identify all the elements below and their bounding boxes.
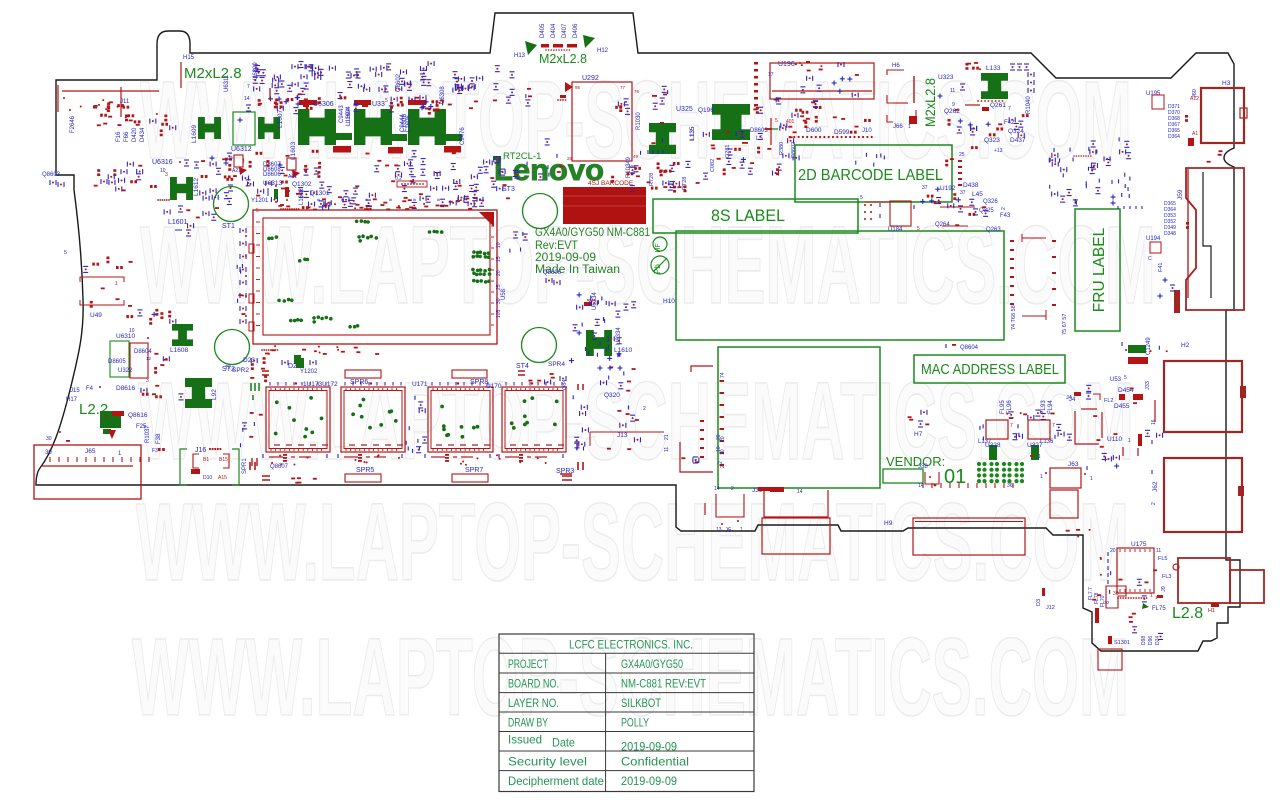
svg-text:Q320: Q320 [604,392,620,399]
svg-text:Q326: Q326 [983,199,998,205]
chip U175 [1117,548,1154,593]
svg-text:1U173U172: 1U173U172 [303,381,338,388]
svg-text:75 67 57: 75 67 57 [1062,314,1068,335]
svg-text:U6306: U6306 [313,101,334,108]
chip U292 [572,82,632,161]
component cluster chip gaps [406,396,423,451]
svg-text:H1: H1 [1208,608,1215,614]
svg-text:11: 11 [1156,548,1161,554]
svg-text:Y1201: Y1201 [251,198,269,204]
component cluster below J63 [1084,473,1086,475]
svg-text:D3: D3 [1036,599,1042,606]
svg-text:J16: J16 [195,447,206,454]
component cluster top strip b [268,95,300,114]
component cluster boost below-chips [271,454,547,466]
svg-text:L1609: L1609 [191,125,198,143]
svg-text:U170: U170 [486,383,502,390]
svg-text:15: 15 [496,256,502,262]
svg-text:2019-09-09: 2019-09-09 [621,774,677,788]
svg-text:16: 16 [1151,419,1157,425]
connector J5 [716,494,744,517]
inductor L133 [981,73,1008,99]
svg-text:B1: B1 [203,457,209,463]
svg-text:L1612: L1612 [193,178,200,196]
svg-text:Y1202: Y1202 [300,369,318,375]
component row AJ01 [126,309,175,325]
label L137 [989,445,997,460]
component 0.2ohm row [397,181,427,187]
svg-text:FRU LABEL: FRU LABEL [1091,227,1108,312]
RAM U171 top pin row [431,382,433,386]
svg-text:36: 36 [1007,483,1013,489]
svg-text:12: 12 [146,356,152,361]
inductor L1612 [170,177,193,200]
component cluster below H3 [1207,150,1223,162]
svg-text:Q1301: Q1301 [310,190,330,197]
component cluster boost Q26x [945,109,1028,166]
row above CPU [338,196,477,209]
svg-text:Q8606: Q8606 [543,270,562,276]
svg-text:D8604: D8604 [134,349,152,355]
svg-text:1: 1 [1038,454,1041,460]
svg-text:8S LABEL: 8S LABEL [711,207,785,225]
inductor L1610 [586,330,612,356]
svg-text:M2xL2.8: M2xL2.8 [539,52,587,66]
svg-text:1: 1 [1090,476,1093,482]
component cluster boost left [80,102,158,126]
connector J62 [1164,458,1242,532]
svg-text:D98: D98 [1141,636,1147,645]
svg-text:17: 17 [768,72,774,78]
inductor L92 [185,378,212,408]
svg-text:J12: J12 [1046,605,1055,611]
svg-text:SPR6: SPR6 [350,379,368,386]
svg-text:14: 14 [244,96,250,102]
component Q8604 [945,344,947,348]
connector J63 [1050,468,1081,488]
svg-text:2: 2 [720,465,726,468]
svg-text:11: 11 [950,88,955,94]
svg-text:D348: D348 [1164,231,1176,237]
label box FRU LABEL [1075,209,1120,331]
svg-text:U171: U171 [412,381,428,388]
component cluster Q196 right [753,97,798,130]
svg-text:U33: U33 [372,101,385,108]
svg-text:ST3: ST3 [502,186,515,193]
svg-text:SPR2: SPR2 [232,367,249,374]
svg-text:Date: Date [552,736,575,750]
component cluster boost lenovo [630,161,700,192]
component cluster right of U292 [641,86,675,171]
svg-text:28: 28 [567,156,573,161]
svg-text:J65: J65 [85,448,96,455]
svg-text:5: 5 [860,195,863,201]
svg-text:5: 5 [385,98,388,104]
RAM U172 bottom pads [344,456,358,458]
board outline [36,13,1240,651]
label RT2CL-1 [493,156,501,160]
svg-text:Q8607: Q8607 [270,464,289,470]
svg-text:U322: U322 [118,368,133,374]
svg-text:L1610: L1610 [614,347,632,354]
component bracket H-area [590,431,664,433]
label box MAC ADDRESS LABEL [914,355,1065,383]
component cluster boost U6334 [577,300,637,348]
svg-text:FL70: FL70 [1100,595,1106,607]
svg-text:37: 37 [922,185,928,191]
marker H12 tab [583,35,595,48]
RAM U171 bottom pads [431,456,445,458]
svg-text:1: 1 [115,281,118,287]
inductor L1609 [198,117,221,139]
svg-text:RT2CL-1: RT2CL-1 [503,151,541,162]
svg-text:L2.8: L2.8 [1172,605,1203,622]
RAM chip U171 [428,387,493,452]
RAM U173 top pin row [269,382,271,386]
svg-text:30: 30 [46,436,52,442]
svg-text:Q264: Q264 [935,222,950,228]
svg-text:D437: D437 [1010,137,1026,144]
svg-text:11: 11 [664,447,670,452]
svg-text:0.2: 0.2 [395,176,402,182]
component cluster below 8S [864,204,866,206]
resistor pack SPR8 [452,370,487,378]
connector J39 pads [764,490,828,517]
svg-text:POLLY: POLLY [621,716,649,730]
svg-text:J9: J9 [1161,586,1167,592]
svg-text:25: 25 [959,152,965,158]
component cluster below L1610 [601,366,636,391]
svg-text:7: 7 [1008,106,1011,112]
svg-text:20: 20 [720,436,726,442]
svg-text:1: 1 [740,527,743,533]
svg-text:D8606: D8606 [263,172,281,178]
svg-text:L1606: L1606 [406,115,412,132]
component cluster boost top1 [253,66,336,95]
svg-text:F3: F3 [152,448,158,454]
svg-text:J33: J33 [1145,381,1151,390]
svg-text:Issued: Issued [508,733,542,747]
hole ST4 [522,328,557,363]
hole ST3 [523,194,558,229]
svg-text:7: 7 [247,84,250,90]
connector H6 [770,63,874,99]
hole ST2 [215,330,250,365]
svg-text:4SJ BARCODE: 4SJ BARCODE [588,180,634,187]
svg-text:LCFC ELECTRONICS. INC.: LCFC ELECTRONICS. INC. [569,638,693,652]
svg-text:S1301: S1301 [1114,640,1130,646]
chips U328 U327 [986,420,1008,439]
title block [499,634,754,792]
svg-text:L135: L135 [690,126,696,140]
svg-text:1: 1 [1150,593,1153,599]
svg-text:SPR7: SPR7 [465,467,483,474]
inductor bars [336,133,352,140]
svg-text:C9476: C9476 [460,127,466,145]
resistor pack SPR5 [345,474,381,482]
component cluster boost chipgap [413,408,428,453]
component U49 [80,277,124,282]
chips U6310 U322 [110,341,129,377]
component cluster boost top4 [256,185,426,203]
svg-text:U192: U192 [940,185,956,192]
svg-text:A21: A21 [232,168,241,174]
svg-text:1: 1 [1128,438,1131,444]
svg-text:LAYER NO.: LAYER NO. [508,696,559,710]
svg-text:U194: U194 [1146,236,1161,242]
svg-text:D405: D405 [540,23,546,38]
connector J59 [1186,168,1244,310]
svg-text:SPR4: SPR4 [548,361,565,368]
svg-text:Q261: Q261 [990,102,1006,109]
resistor pack SPR6 [345,370,381,378]
svg-text:FL75: FL75 [1152,606,1166,612]
svg-text:L1607: L1607 [277,110,284,128]
svg-text:Q323: Q323 [984,137,1000,144]
svg-text:U175: U175 [1131,541,1147,548]
svg-text:21: 21 [664,434,670,440]
svg-text:U292: U292 [582,75,599,82]
svg-text:10: 10 [496,242,502,248]
svg-text:30: 30 [496,298,502,304]
svg-text:GX4A0/GYG50: GX4A0/GYG50 [621,657,683,671]
svg-text:J60: J60 [1192,89,1198,98]
svg-text:DRAW BY: DRAW BY [508,716,548,730]
svg-text:U6316: U6316 [152,159,173,166]
svg-text:Security level: Security level [508,755,587,769]
svg-text:M2xL2.8: M2xL2.8 [184,65,242,82]
svg-text:U195: U195 [1146,91,1161,97]
svg-text:5: 5 [64,250,67,256]
svg-text:J5: J5 [725,528,732,534]
diode dash row tab [541,44,549,48]
component column right of CPU q [510,232,528,253]
svg-text:5: 5 [256,208,259,214]
svg-text:NM-C881 REV:EVT: NM-C881 REV:EVT [621,677,707,691]
svg-text:H7: H7 [914,431,923,438]
svg-text:74: 74 [720,372,726,378]
svg-text:Q8603: Q8603 [42,172,61,178]
svg-text:D407: D407 [562,23,568,38]
svg-text:U196: U196 [778,61,795,68]
inductor L1608 [172,324,193,346]
svg-text:20: 20 [496,270,502,276]
svg-text:D364: D364 [1168,134,1180,140]
component cluster boost top3 [201,150,318,194]
svg-text:Rev:EVT: Rev:EVT [535,240,578,252]
svg-text:F38: F38 [156,433,162,444]
svg-text:U328: U328 [985,442,1001,449]
svg-text:30: 30 [45,450,52,456]
svg-text:U49: U49 [90,312,102,319]
connector H3 [1201,88,1244,143]
component cluster left edge top [62,90,159,92]
component cluster boost tail [1092,569,1163,639]
svg-text:10: 10 [720,449,726,455]
svg-text:C1249: C1249 [1146,337,1152,355]
svg-text:U327: U327 [1027,442,1043,449]
svg-text:5: 5 [775,118,778,124]
component column left of CPU [239,228,241,233]
svg-text:J66: J66 [893,124,903,130]
svg-text:C9443: C9443 [339,105,345,123]
svg-text:H13: H13 [514,53,526,59]
svg-text:2: 2 [718,461,724,464]
svg-text:ST1: ST1 [222,223,235,230]
svg-text:01: 01 [944,466,966,488]
RAM U170 bottom pads [505,456,519,458]
inductor L1607 [258,117,280,139]
CPU bottom pin rows [265,345,379,355]
svg-text:2: 2 [731,486,734,492]
capacitor C1249 [1128,345,1146,353]
svg-text:D438: D438 [963,182,979,189]
svg-text:D599: D599 [834,129,850,136]
svg-text:L1608: L1608 [170,347,188,354]
svg-text:U6312: U6312 [231,146,252,153]
svg-text:M2xL2.8: M2xL2.8 [922,78,938,127]
svg-text:D455: D455 [1114,403,1130,410]
svg-text:L1604: L1604 [346,106,352,123]
svg-text:VENDOR:: VENDOR: [886,454,945,469]
svg-text:F4: F4 [86,386,94,392]
inductor L135 [649,123,676,154]
component cluster lenovo row [611,162,679,183]
inductor L1603 [298,109,336,145]
svg-text:2019-09-09: 2019-09-09 [535,252,596,264]
svg-text:BOARD NO.: BOARD NO. [508,677,559,691]
svg-text:H9: H9 [884,520,893,527]
svg-text:H10: H10 [663,298,675,305]
svg-text:Q196: Q196 [698,107,714,114]
svg-text:13: 13 [716,527,722,533]
svg-text:D8616: D8616 [116,385,136,392]
svg-text:U6311: U6311 [224,74,230,92]
component cluster mid top [304,182,376,207]
svg-text:14: 14 [714,486,720,492]
svg-text:U6310: U6310 [116,333,136,340]
svg-text:R728: R728 [649,173,655,186]
CPU top pin name row [278,203,448,210]
svg-text:7: 7 [1052,423,1055,429]
svg-text:Q84: Q84 [562,380,568,390]
RoHS HF mark [653,237,667,251]
inductor L1604 [354,109,392,145]
RoHS Pb mark [651,256,669,274]
label box J39 region [718,347,880,488]
svg-text:+13: +13 [994,148,1003,154]
svg-text:Q325: Q325 [979,208,994,214]
svg-text:2: 2 [1151,502,1157,505]
svg-text:U53: U53 [1110,377,1122,383]
chip U6312 [233,112,255,145]
svg-text:SILKBOT: SILKBOT [621,696,662,710]
svg-text:U325: U325 [676,106,693,113]
marker H13 tab [525,41,537,55]
svg-text:F16: F16 [116,131,122,142]
RAM U173 bottom pads [269,456,283,458]
svg-text:R1030: R1030 [636,112,642,130]
svg-text:U110: U110 [1107,436,1122,443]
component cluster U6334 [569,292,628,363]
svg-text:SPR1: SPR1 [242,458,248,474]
svg-text:F41: F41 [1158,263,1164,272]
svg-text:PROJECT: PROJECT [508,657,548,671]
CPU U58 [253,210,497,344]
svg-text:L133: L133 [986,65,1001,72]
svg-text:FL2: FL2 [1104,398,1113,404]
svg-text:R380: R380 [779,142,785,155]
connector eDP [762,518,830,554]
svg-text:FL93: FL93 [1041,400,1047,414]
svg-text:H17: H17 [66,397,78,403]
svg-text:D96: D96 [1148,636,1154,645]
svg-text:5: 5 [917,226,920,232]
svg-text:R1040: R1040 [1026,96,1032,114]
RAM chip U173 [266,387,330,452]
svg-text:Q1302: Q1302 [292,181,312,188]
svg-text:2019-09-09: 2019-09-09 [621,740,677,754]
svg-text:D10: D10 [203,475,212,481]
component A21 pair [234,155,243,167]
J39 box pin column [720,380,725,382]
svg-text:ST4: ST4 [516,363,529,370]
svg-text:L92: L92 [211,389,218,400]
inductor Q196 [712,104,750,140]
svg-text:J4: J4 [1066,395,1072,401]
svg-text:H15: H15 [183,55,195,61]
svg-text:D420: D420 [132,127,138,142]
svg-text:L45: L45 [972,191,983,198]
4SJ barcode [563,187,646,224]
label box H10 [676,231,1004,340]
svg-text:J59: J59 [1177,189,1184,200]
RAM chip U172 [341,387,405,452]
svg-text:A21: A21 [288,174,297,180]
svg-text:J11: J11 [120,99,130,105]
svg-text:D404: D404 [551,23,557,38]
svg-text:F2646: F2646 [70,115,76,133]
RAM U172 top pin row [344,382,346,386]
component cluster top strip a [292,62,321,90]
svg-text:H2: H2 [1181,342,1190,349]
connector J16 area [180,449,187,485]
connector J38 [925,472,939,484]
svg-text:H12: H12 [597,48,609,54]
svg-text:B15: B15 [219,457,228,463]
svg-text:T2: T2 [225,365,231,371]
component cluster left edge bottom [59,431,61,433]
svg-text:Q8604: Q8604 [960,345,979,351]
svg-text:A1: A1 [1192,131,1198,137]
component cluster near H2 [1150,346,1168,353]
CPU fiducial dots [267,219,491,328]
label L136 [1031,445,1039,460]
svg-text:D600: D600 [806,127,822,134]
svg-text:37: 37 [960,190,966,196]
svg-text:Q8616: Q8616 [128,412,148,419]
svg-text:U6334: U6334 [616,327,622,345]
svg-text:2: 2 [643,406,646,412]
component dash column right of H10 [1010,240,1014,242]
svg-text:R1037: R1037 [145,425,151,443]
svg-text:2D BARCODE LABEL: 2D BARCODE LABEL [798,167,943,184]
svg-text:J38: J38 [918,464,928,470]
svg-text:D434: D434 [140,127,146,142]
component B1 pad [100,411,121,428]
svg-text:14: 14 [918,483,924,489]
svg-text:25: 25 [496,284,502,290]
